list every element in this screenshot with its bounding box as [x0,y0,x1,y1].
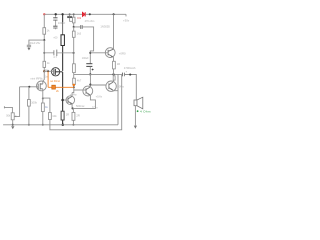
svg-text:100uF 25v: 100uF 25v [28,42,41,45]
node Q1 source [42,98,44,100]
resistor R6 [73,17,76,23]
wire R12 up to Q1 source node [43,98,50,112]
wire left column from rail down to R2 [43,14,45,27]
transistor Q4 driver 2 [83,86,93,96]
orange net: node on gate wire [47,70,49,72]
resistor R2 [43,28,46,35]
wire output rail y74.4 [74,73,122,75]
wire R6 to node n1 [73,23,75,27]
node 4u7 right [73,52,75,54]
ground rail [3,124,118,126]
node ground x42.8 [42,124,44,126]
wire right divider column from rail [73,14,75,17]
node rail bold corner [61,13,63,15]
wire n1 to R7 and down [73,27,75,64]
svg-text:mini IRF8c: mini IRF8c [30,77,43,81]
svg-text:100uF: 100uF [82,57,89,60]
wire Q6 collector to R15 [113,74,115,81]
capacitor C4 across R6 [67,14,72,21]
wire R14 to ground [28,106,30,125]
wire Q5 base [90,52,108,54]
resistor R4 bold [61,35,64,46]
node output x90.3 [89,73,91,75]
node n1 [73,26,75,28]
svg-text:set 39mA: set 39mA [50,80,60,83]
capacitor C5 series in bootstrap [81,25,83,29]
svg-text:100nF: 100nF [58,21,66,25]
svg-text:4.7: 4.7 [53,55,57,59]
speaker LS1 [134,97,143,109]
wire R11 to ground [72,120,74,125]
wire bold output spine from rail [62,14,64,22]
resistor R12 feedback [49,113,52,120]
wire R10 to output node [113,69,115,75]
node Q4 collector / Q6 base tap [89,84,91,86]
ground arrow speaker [134,126,137,129]
wire bias node down to R14 [28,87,30,100]
node n3 orange [73,84,76,87]
wire VR1 wiper to riser [14,87,19,117]
wire Q3 collector up [71,93,73,97]
wire Q6 base feed [90,84,106,86]
wire Q5 collector to rail [113,14,115,49]
wire R5 to ground rail [62,120,64,125]
svg-text:1N3055: 1N3055 [100,25,110,29]
capacitor C2 100nF from rail (two in series) [53,14,57,29]
wire Q1 gate input [20,86,39,88]
resistor R15 [113,76,115,80]
Q5 emitter arrow [111,55,114,57]
wire output node to R9 [73,74,75,78]
node rail junction x69.6 [69,13,71,15]
node output x113.5 [112,73,114,75]
wire input terminal [4,106,12,113]
wire VR1 bottom to ground [12,120,14,125]
node rail junction x113.8 [113,13,115,15]
svg-text:500mw: 500mw [76,104,84,108]
resistor R10 [113,61,116,69]
svg-text:1k5: 1k5 [77,32,82,36]
node rail junction x89.8 [89,13,91,15]
capacitor C3 4.7uF coupling [44,50,73,56]
svg-text:+0Rw: +0Rw [70,93,77,97]
svg-text:50k: 50k [6,115,11,118]
node supply corner (red) [43,13,45,15]
svg-text:100k: 100k [31,100,37,104]
capacitor C6 bootstrap electrolytic [86,64,93,71]
transistor Q1 input MOSFET [37,81,47,91]
node Q3 base on spine [61,99,64,102]
wire feedback from output down [50,74,122,129]
node 4u7 tap [43,52,45,54]
node ground x73.4 [72,124,74,126]
capacitor C1 filter to ground [27,45,31,48]
Q4 emitter arrow [88,93,90,95]
wire R8 to output node [73,73,75,75]
wire Q6 emitter hook to rail end [113,74,118,124]
ground arrow input [11,126,14,129]
wire bootstrap branch from n1 [74,27,94,64]
wire R13 to ground [42,98,44,125]
VR1 wiper arrow [14,116,16,118]
Q6 emitter arrow [111,88,114,90]
wire supply end tick [125,14,127,16]
svg-text:2R: 2R [76,114,79,118]
resistor R13 source [41,103,44,112]
wire Q1 drain [42,81,44,84]
svg-text:2k: 2k [56,89,59,93]
transistor Q3 driver [66,96,75,105]
svg-text:+00: +00 [53,37,58,40]
node A [43,39,45,41]
wire top supply rail left segment [44,13,82,15]
trimmer VR2 (orange) [52,85,56,89]
resistor R7 [72,31,75,37]
capacitor C7 output electrolytic [123,73,125,77]
wire bold spine R4 to Q2 [62,46,64,71]
svg-text:1k: 1k [47,28,50,32]
wire R3 to gate node [43,67,45,71]
node ground bold [62,124,65,127]
wire node down to R11 [72,108,74,112]
node Q5 base tap [89,52,91,54]
wire node A branch left [29,40,44,45]
wire top supply rail right segment [85,13,126,15]
node ground x28.9 [28,124,30,126]
wire Q4 collector up to output node [89,74,91,87]
wire R9 to orange node n3 [72,85,74,93]
svg-text:D1: D1 [78,16,82,20]
node Q3 emitter junction [72,107,74,109]
wire Q1 source down [42,89,44,98]
wire C6 to output node [89,67,91,75]
orange wire horizontal [48,86,74,88]
svg-text:+0.6v: +0.6v [96,95,103,99]
svg-text:4k7: 4k7 [77,79,82,83]
svg-text:+: + [126,71,128,74]
svg-text:+0R0: +0R0 [119,51,126,55]
resistor R11 [72,112,75,120]
transistor Q5 upper output [105,48,115,58]
ground arrow below C1 [28,48,31,50]
wire Q3 emitter to node [71,104,74,109]
resistor R8 [73,64,76,73]
resistor R5 bold emitter [61,111,64,120]
svg-text:470 ohm: 470 ohm [85,20,95,23]
svg-text:+30v: +30v [123,18,130,22]
wire bold spine Q2 to Q3 base node [62,72,64,111]
wire left column down to Q1 drain [43,71,44,81]
potentiometer VR1 volume [11,113,14,120]
wire Q2 gate [44,70,54,72]
svg-text:1k: 1k [45,105,48,109]
svg-text:4 Ohm: 4 Ohm [140,110,151,114]
resistor R9 [73,78,76,84]
resistor R14 bias 100k [28,100,31,107]
transistor Q6 lower output [106,81,116,91]
node ground x12.7 [12,124,14,126]
wire Q3 base from bold spine [63,99,68,101]
orange wire down [47,71,49,87]
svg-text:1k: 1k [47,61,50,65]
node rail junction x73.7 [73,13,75,15]
svg-text:1R: 1R [66,113,69,117]
wire R2 to node A [43,34,45,40]
wire Q4 emitter down and to emitter bus [73,95,96,109]
label speaker impedance (green) [137,110,139,112]
node rail junction x55.7 [55,13,57,15]
node gate bias junction [28,86,30,88]
wire C7 to speaker [124,75,136,101]
node base junction dark [73,86,75,88]
wire node A to R3 [43,40,45,61]
wire Q4 base from column [74,89,86,91]
wire speaker to ground arrow [134,106,136,126]
resistor R3 [43,61,46,67]
node Q2 gate tap [43,70,45,72]
diode D1 LED in rail [83,12,86,16]
transistor Q2 MOSFET (bold) [51,68,62,76]
wire Q5 emitter to R10 [113,57,115,61]
svg-text:10k: 10k [52,114,57,118]
node after C7 [129,74,131,76]
Q3 emitter arrow [70,103,72,105]
svg-text:4700mAh: 4700mAh [124,66,136,70]
svg-text:1R: 1R [117,62,120,66]
